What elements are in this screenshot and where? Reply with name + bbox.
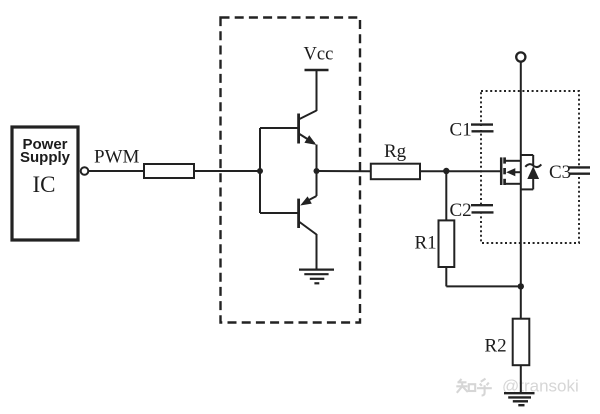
svg-text:IC: IC [33, 172, 56, 197]
svg-text:R1: R1 [415, 232, 437, 253]
svg-text:Rg: Rg [384, 141, 407, 162]
svg-text:PWM: PWM [94, 147, 140, 168]
svg-text:C3: C3 [549, 162, 571, 183]
svg-text:R2: R2 [485, 336, 507, 357]
svg-text:Supply: Supply [20, 149, 71, 166]
svg-text:Vcc: Vcc [304, 45, 334, 65]
svg-text:C2: C2 [450, 200, 472, 221]
svg-text:C1: C1 [450, 120, 472, 141]
